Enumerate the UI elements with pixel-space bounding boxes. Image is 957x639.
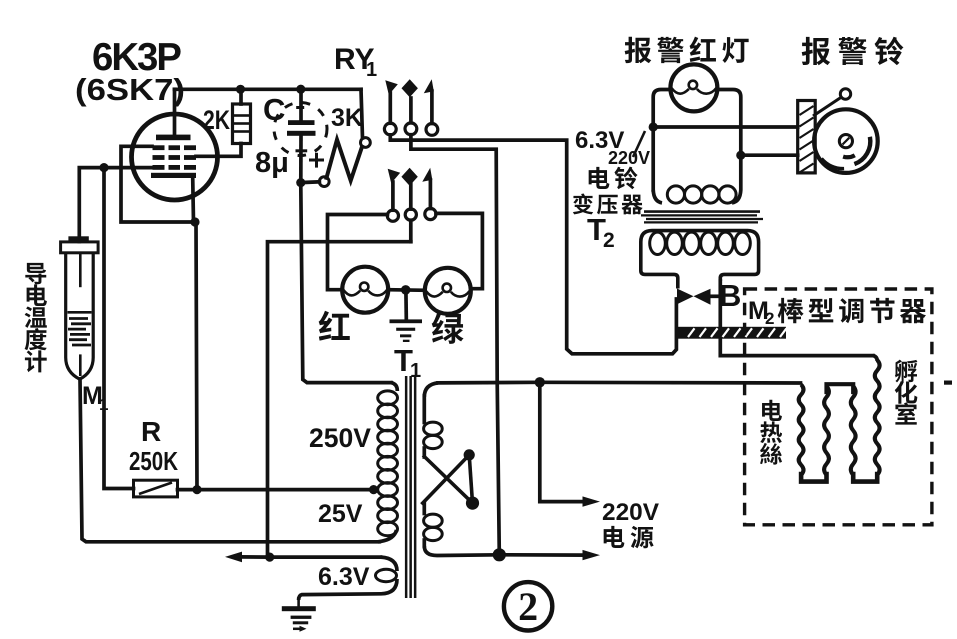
capacitor C top plate — [288, 120, 315, 125]
wire cathode drop — [191, 177, 196, 222]
relay coil RY1 3K — [361, 89, 363, 138]
label daodian-wenduji vertical — [25, 263, 46, 284]
transformer T1 secondary 250V winding — [391, 383, 397, 391]
resistor R 250K — [134, 480, 178, 497]
contact circle lower-right — [425, 208, 436, 219]
wire M1 top riser — [79, 168, 104, 242]
wire bell lamp to striker block lower — [741, 153, 798, 157]
regulator rod M2 hatched bar — [678, 327, 786, 339]
contact circle upper-left — [384, 123, 396, 135]
arrow contact lower-middle diamond — [401, 168, 417, 186]
svg-text:2: 2 — [518, 584, 538, 629]
wire upper-middle contact down to T1 primary bottom — [411, 135, 499, 555]
node R-cathode junction — [192, 485, 201, 494]
svg-text:220V: 220V — [608, 148, 650, 168]
node cross upper — [464, 449, 475, 460]
wire grid node down to R — [104, 168, 134, 489]
node cathode junction — [190, 217, 199, 226]
wire screen grid to 2K — [196, 144, 241, 157]
heater column 4 wavy — [875, 360, 880, 475]
alarm lamp loop — [653, 90, 670, 128]
wire R output to T1 tap — [178, 488, 374, 492]
heater column 1 wavy — [799, 385, 804, 476]
grid dashes V1 row2 — [153, 155, 165, 160]
svg-text:6.3V: 6.3V — [318, 563, 370, 591]
terminal circle RY1 bottom — [319, 177, 329, 187]
plus sign of capacitor C — [309, 159, 324, 162]
indicator lamp green — [425, 268, 471, 314]
figure number 2 in circle — [504, 582, 552, 630]
wire lower-left contact to red lamp — [328, 215, 388, 290]
svg-text:1: 1 — [366, 59, 377, 81]
anode plate V1 — [156, 135, 191, 141]
cathode bar V1 — [151, 173, 196, 178]
valve symbol B bowtie — [677, 289, 694, 305]
svg-text:(6SK7): (6SK7) — [75, 72, 185, 107]
wire C node down to T1 secondary top — [301, 186, 391, 383]
transformer T1 25V winding — [378, 496, 398, 510]
svg-text:250V: 250V — [309, 423, 371, 453]
label fuhuashi vertical — [895, 360, 918, 383]
transformer T2 core — [644, 210, 760, 213]
wire bell lamp to striker block upper — [653, 125, 798, 129]
small arrow under ground — [293, 628, 301, 631]
svg-text:25V: 25V — [318, 500, 363, 528]
scan speck right edge — [944, 381, 952, 385]
node C bottom junction — [296, 178, 305, 187]
label bangxing tiaojieqi — [778, 298, 804, 323]
node grid junction — [99, 163, 108, 172]
incubator dashed box — [745, 289, 932, 525]
M1 body — [66, 253, 94, 379]
zigzag coil RY1 — [327, 140, 363, 181]
wire plate lead V1 — [173, 89, 177, 135]
heater column 3 wavy — [851, 386, 856, 475]
svg-text:2: 2 — [765, 309, 774, 328]
wire lower-middle contact to 6.3V line — [268, 242, 411, 557]
relay contact set lower — [391, 182, 395, 210]
node T1 250V/25V tap — [369, 485, 378, 494]
wire 2K top lead — [239, 89, 243, 104]
transformer T2 secondary loops — [650, 232, 666, 254]
M1 liquid hatching — [68, 311, 92, 314]
alarm bell gong — [814, 109, 878, 173]
wire coil bottom to C node — [306, 180, 320, 184]
label bianyaqi — [573, 193, 593, 214]
label dianresi vertical — [762, 400, 782, 421]
ground symbol 6.3V winding — [297, 600, 300, 606]
transformer T2 secondary — [641, 231, 759, 289]
transformer T2 primary — [651, 127, 655, 190]
contact circle upper-middle — [405, 123, 417, 135]
contact circle lower-middle — [405, 209, 416, 220]
node alarm lamp left — [649, 122, 658, 131]
heater bottom bracket left — [801, 474, 826, 482]
wire M1 bottom to 25V tap — [80, 379, 379, 542]
arrow contact upper-middle diamond — [402, 79, 418, 97]
node 6.3V junction — [265, 553, 274, 562]
label baojing hongdeng — [625, 37, 652, 63]
arrow contact lower-left — [388, 169, 401, 184]
wire cathode line down — [196, 222, 197, 490]
terminal circle RY1 top — [361, 138, 371, 148]
node C top junction — [296, 85, 305, 94]
resistor 2K — [233, 104, 251, 144]
wire lower-right contact to green lamp — [436, 213, 482, 288]
arrow 220V upper lead — [583, 496, 601, 506]
label hong red — [319, 311, 350, 341]
wire lower-middle contact drop — [409, 220, 413, 242]
label lv green — [432, 313, 464, 344]
heater column 2 wavy — [824, 386, 829, 475]
crossed tap connection T1 primary — [424, 457, 472, 504]
transformer T1 primary top lead — [438, 380, 801, 384]
label dianyuan — [604, 526, 625, 548]
node incubator feed junction — [535, 377, 545, 387]
bell gong shading arcs — [854, 137, 870, 164]
capacitor C 8u electrolytic — [299, 89, 303, 121]
wire upper-left contact to T2 secondary via bottom run — [390, 135, 676, 354]
svg-text:8μ: 8μ — [255, 147, 289, 179]
svg-text:C: C — [263, 92, 285, 127]
arrow contact upper-right — [424, 79, 434, 93]
contact circle lower-left — [387, 210, 398, 221]
ground symbol lamps — [390, 319, 423, 323]
wire C bottom lead — [299, 136, 303, 183]
node alarm lamp right — [736, 151, 745, 160]
node 2K top junction — [236, 85, 245, 94]
alarm lamp — [670, 64, 717, 111]
capacitor C bottom plate — [287, 131, 316, 136]
arrow 220V lower lead — [499, 553, 585, 557]
wire 6.3V rail with external arrow — [239, 555, 381, 559]
node primary bottom junction — [493, 548, 506, 561]
contact circle upper-right — [426, 123, 438, 135]
bell gong hub — [839, 135, 852, 148]
alarm bell electromagnet block — [798, 101, 816, 173]
grid dashes V1 row3 — [153, 165, 165, 170]
node lamps midpoint — [401, 285, 411, 295]
wire control grid — [104, 166, 153, 170]
wire between lamps — [388, 288, 425, 292]
svg-text:2K: 2K — [203, 105, 230, 135]
arrow contact lower-right — [422, 168, 432, 182]
transformer T1 6.3V winding — [381, 557, 398, 571]
M1 cap — [61, 242, 99, 253]
bell striker — [840, 89, 850, 99]
svg-text:B: B — [719, 278, 741, 313]
grid dashes V1 row1 — [153, 145, 165, 150]
svg-text:220V: 220V — [602, 499, 659, 526]
transformer T1 core — [405, 376, 408, 598]
svg-text:2: 2 — [603, 229, 615, 252]
indicator lamp red — [342, 267, 388, 313]
svg-text:3K: 3K — [331, 104, 363, 132]
wire grid row1 to cathode node — [121, 146, 195, 222]
wire 220V upper lead — [540, 382, 585, 501]
wire T2 secondary right down to heater feed — [720, 281, 873, 356]
transformer T1 primary lower loops — [422, 503, 426, 513]
transformer T1 primary upper loops — [424, 422, 443, 435]
M1 stem bar — [68, 236, 88, 240]
svg-text:250K: 250K — [129, 446, 178, 476]
label baojingling — [802, 37, 831, 65]
svg-text:R: R — [141, 416, 161, 447]
label dianling — [589, 167, 610, 189]
node cross lower — [466, 497, 479, 510]
vacuum tube V1 6K3P envelope — [132, 114, 218, 200]
wire B+ top rail — [175, 87, 362, 91]
arrow terminal left 6.3V — [225, 552, 242, 563]
wire lamp midpoint to ground — [404, 290, 408, 318]
heater bottom bracket right — [853, 474, 877, 482]
heater top bracket — [827, 384, 854, 392]
relay contact set upper — [388, 93, 392, 123]
arrow contact upper-left — [385, 80, 398, 95]
